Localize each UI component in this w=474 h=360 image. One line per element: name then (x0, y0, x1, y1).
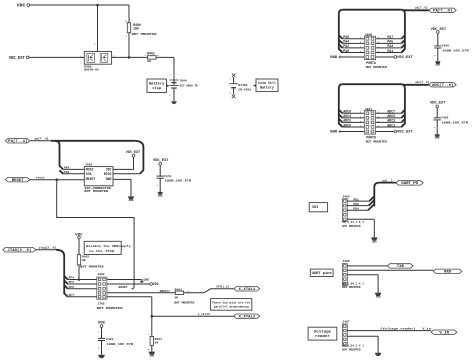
svg-text:C403: C403 (106, 338, 113, 341)
svg-text:RESET: RESET (86, 177, 96, 181)
svg-text:reader: reader (315, 334, 330, 338)
svg-text:J401: J401 (365, 107, 373, 111)
svg-text:VDC_EXT: VDC_EXT (430, 101, 446, 105)
svg-text:PF7: PF7 (69, 294, 75, 297)
svg-text:clip: clip (152, 86, 161, 90)
svg-text:NOT MOUNTED: NOT MOUNTED (342, 286, 361, 289)
svg-text:NOT MOUNTED: NOT MOUNTED (174, 301, 194, 304)
svg-text:VDC_EXT: VDC_EXT (397, 131, 413, 135)
svg-text:PA4: PA4 (343, 40, 349, 44)
svg-text:100N_16V_X7R: 100N_16V_X7R (442, 50, 469, 53)
svg-text:100N_16V_X7R: 100N_16V_X7R (107, 343, 134, 346)
svg-text:ADC[7..0]: ADC[7..0] (432, 83, 453, 87)
svg-text:NOT MOUNTED: NOT MOUNTED (97, 307, 123, 310)
svg-text:PD1: PD1 (353, 198, 359, 201)
svg-text:JTAG[3..0]: JTAG[3..0] (7, 248, 31, 252)
svg-text:ADC2: ADC2 (343, 119, 351, 123)
svg-text:PA5: PA5 (387, 40, 393, 44)
svg-text:VDC: VDC (17, 5, 26, 9)
svg-text:ADC7: ADC7 (387, 110, 395, 114)
svg-text:PA[7..0]: PA[7..0] (433, 8, 452, 12)
svg-text:pa[7..0]: pa[7..0] (415, 5, 428, 9)
svg-text:PD0: PD0 (353, 203, 359, 206)
svg-text:PA6: PA6 (343, 35, 349, 39)
svg-text:V_IN: V_IN (439, 330, 449, 334)
svg-text:PA3: PA3 (387, 44, 393, 48)
svg-text:J403: J403 (85, 163, 92, 166)
svg-text:Disable the VDDsupply: Disable the VDDsupply (86, 244, 131, 248)
svg-text:(Voltage reader): (Voltage reader) (380, 327, 416, 331)
svg-text:RESET: RESET (12, 178, 24, 182)
svg-text:PA2: PA2 (343, 44, 349, 48)
svg-text:GND: GND (143, 279, 149, 282)
svg-text:Voltage: Voltage (314, 330, 331, 334)
svg-text:10k: 10k (133, 26, 139, 30)
svg-text:R403: R403 (175, 288, 182, 291)
svg-text:UDI: UDI (312, 205, 318, 209)
svg-text:C402: C402 (441, 117, 448, 120)
svg-text:MISO: MISO (104, 172, 112, 176)
svg-text:ADC5: ADC5 (387, 114, 395, 118)
svg-text:100N_16V_X7R: 100N_16V_X7R (442, 121, 469, 124)
svg-text:100N_16V_X7R: 100N_16V_X7R (165, 180, 192, 183)
svg-text:NOT MOUNTED: NOT MOUNTED (84, 190, 108, 193)
svg-text:parallel programming: parallel programming (214, 305, 249, 309)
svg-text:R402: R402 (82, 256, 89, 259)
svg-text:PD4: PD4 (353, 207, 359, 210)
svg-text:10_1_54_3 X 1: 10_1_54_3 X 1 (342, 345, 364, 348)
svg-text:BAS40-05: BAS40-05 (84, 68, 99, 71)
svg-text:GND: GND (435, 64, 440, 67)
svg-text:PA4: PA4 (64, 166, 70, 169)
svg-text:PORTA: PORTA (366, 61, 376, 65)
svg-text:adc[7..0]: adc[7..0] (415, 80, 429, 84)
svg-text:VDC: VDC (106, 167, 112, 171)
svg-text:NOT MOUNTED: NOT MOUNTED (366, 141, 388, 144)
svg-text:GND: GND (106, 177, 112, 181)
svg-text:CR-2450: CR-2450 (238, 88, 251, 91)
svg-text:ADC6: ADC6 (343, 110, 351, 114)
svg-text:J406: J406 (342, 260, 349, 263)
svg-text:VDC_EXT: VDC_EXT (9, 57, 25, 61)
svg-text:VDC_EXT: VDC_EXT (397, 56, 413, 60)
svg-text:GND211: GND211 (160, 290, 171, 293)
svg-text:pa[7..4]: pa[7..4] (35, 137, 49, 141)
svg-text:VDC_EXT: VDC_EXT (126, 151, 140, 155)
svg-text:V_in: V_in (422, 327, 431, 331)
svg-text:NOT MOUNTED: NOT MOUNTED (366, 66, 388, 69)
svg-text:PA7: PA7 (387, 35, 393, 39)
svg-text:R404: R404 (155, 338, 162, 341)
svg-text:0R: 0R (82, 259, 86, 262)
svg-text:J402: J402 (97, 273, 104, 276)
svg-text:GND: GND (376, 296, 381, 299)
svg-text:X_XTAL2: X_XTAL2 (239, 314, 256, 318)
svg-text:ADC1: ADC1 (387, 123, 395, 127)
svg-text:GND: GND (435, 137, 440, 140)
svg-text:These two pins are for: These two pins are for (212, 300, 251, 304)
svg-text:JTAG: JTAG (97, 303, 104, 306)
svg-text:PA0: PA0 (343, 49, 349, 53)
svg-text:GND: GND (330, 56, 338, 60)
svg-text:RXD: RXD (444, 269, 451, 273)
svg-text:Battery: Battery (149, 82, 164, 86)
svg-text:PF6: PF6 (69, 286, 75, 289)
svg-text:R401: R401 (147, 52, 155, 56)
svg-text:UART pins: UART pins (312, 271, 332, 275)
svg-text:x_xtal2: x_xtal2 (198, 312, 210, 316)
svg-text:BT400: BT400 (238, 84, 247, 87)
svg-text:PA1: PA1 (387, 49, 393, 53)
svg-text:PA6: PA6 (64, 171, 70, 174)
svg-text:NOT MOUNTED: NOT MOUNTED (80, 266, 104, 269)
svg-text:reset: reset (36, 177, 45, 180)
svg-text:J400: J400 (365, 33, 373, 37)
svg-text:Battery: Battery (260, 86, 274, 90)
svg-text:SCK: SCK (86, 172, 92, 176)
svg-text:0R: 0R (147, 60, 151, 63)
svg-text:pd[..]: pd[..] (382, 179, 393, 183)
svg-text:KZY-3606-TR: KZY-3606-TR (180, 84, 198, 87)
svg-text:ADC4: ADC4 (343, 114, 351, 118)
svg-text:XTAL1_12: XTAL1_12 (216, 286, 229, 289)
svg-text:10_1_54_4 X 1: 10_1_54_4 X 1 (342, 221, 364, 224)
svg-text:10_1_54_3 X 1: 10_1_54_3 X 1 (342, 282, 364, 285)
svg-text:J405: J405 (342, 195, 349, 198)
svg-text:MOSI: MOSI (86, 167, 94, 171)
svg-text:jtag[3..0]: jtag[3..0] (39, 246, 57, 250)
svg-text:0R: 0R (175, 297, 179, 300)
svg-text:J407: J407 (342, 321, 349, 324)
svg-text:GND: GND (149, 354, 154, 357)
svg-text:C400: C400 (442, 45, 449, 48)
svg-text:GND: GND (330, 131, 338, 135)
svg-text:Coin Cell: Coin Cell (258, 81, 276, 85)
svg-text:C141: C141 (164, 175, 171, 178)
svg-text:UART_PD: UART_PD (401, 181, 418, 185)
svg-text:X_XTAL1: X_XTAL1 (239, 287, 256, 291)
svg-text:NOT MOUNTED: NOT MOUNTED (342, 225, 361, 228)
svg-text:to the JTAG: to the JTAG (89, 249, 114, 253)
svg-text:GND: GND (158, 194, 163, 197)
svg-text:PF4: PF4 (69, 277, 75, 280)
svg-text:ADC3: ADC3 (387, 119, 395, 123)
svg-text:PF5: PF5 (69, 281, 75, 284)
svg-text:PA[7..4]: PA[7..4] (8, 139, 27, 143)
svg-text:VDC: VDC (153, 282, 159, 286)
svg-text:PORTD: PORTD (366, 136, 376, 140)
svg-text:GND: GND (129, 199, 134, 202)
svg-text:GND: GND (372, 240, 377, 243)
svg-text:TXD: TXD (397, 264, 404, 268)
svg-text:NOT MOUNTED: NOT MOUNTED (342, 348, 361, 351)
svg-text:JV04: JV04 (180, 79, 187, 82)
svg-text:RESET: RESET (119, 285, 128, 289)
svg-text:NOT MOUNTED: NOT MOUNTED (132, 33, 157, 36)
svg-text:1M: 1M (155, 342, 159, 345)
svg-text:ADC0: ADC0 (343, 123, 351, 127)
